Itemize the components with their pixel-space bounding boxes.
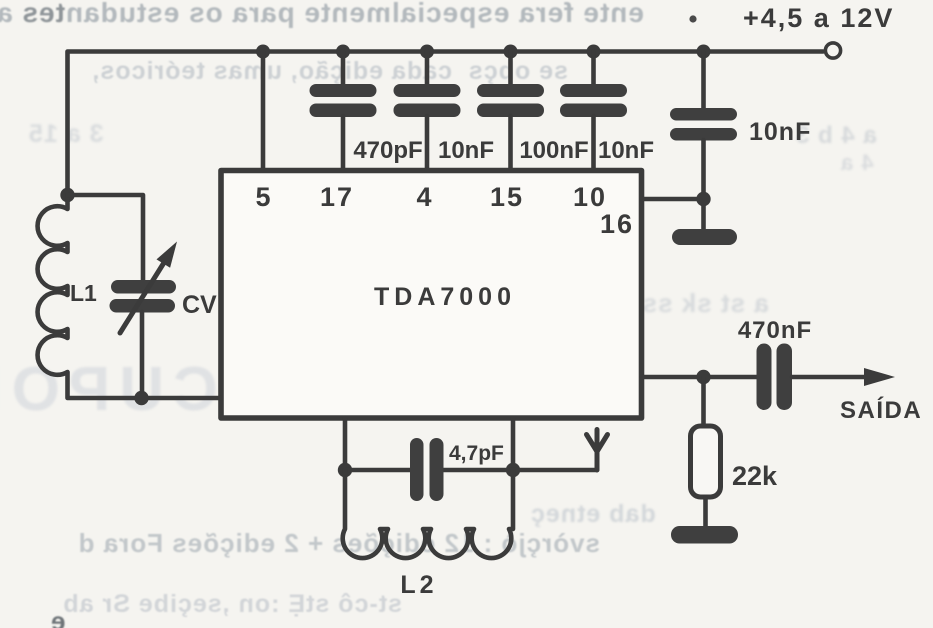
node rail-C2 [420,45,434,59]
bleed-through background texts (decorative) [0,0,644,29]
ink dot [689,15,696,22]
svg-text:10nF: 10nF [598,137,654,164]
svg-text:10nF: 10nF [438,137,494,164]
wire output pin [642,375,758,380]
node L2 left [338,463,352,477]
op-amp U1 TDA7000 [221,171,642,419]
svg-text:16: 16 [600,209,634,239]
variable capacitor CV [68,195,218,398]
capacitor C4 10nF [560,52,654,171]
svg-text:L1: L1 [70,280,97,306]
node L1 top [60,188,74,202]
node CV bottom [134,391,148,405]
node rail-pin5 [256,45,270,59]
antenna [587,430,608,471]
wire IC pin down left [343,418,348,470]
ground (R1) [671,526,738,544]
power rail +V [68,52,824,196]
node C5-pin16 [696,192,710,206]
node rail-C5 [697,45,711,59]
svg-text:10nF: 10nF [749,118,811,146]
inductor L1 [38,195,221,398]
wire pin5 [261,52,266,171]
capacitor C1 470pF [310,52,423,171]
capacitor C6 470nF [738,317,812,410]
svg-text:SAÍDA: SAÍDA [840,396,922,424]
svg-text:10: 10 [573,182,607,212]
svg-text:L2: L2 [400,571,437,599]
node rail-C3 [504,45,518,59]
svg-text:470pF: 470pF [353,137,422,164]
svg-text:4: 4 [416,182,431,212]
wire L2-C7 left [345,468,411,473]
ground (C5) [672,229,737,245]
inductor L2 [343,470,513,599]
svg-text:TDA7000: TDA7000 [374,283,516,311]
wire IC pin down right [511,418,516,470]
node output [696,370,710,384]
svg-text:15: 15 [490,182,524,212]
supply terminal [825,43,840,58]
node L2 right [506,463,520,477]
capacitor C5 10nF (bypass) [670,52,811,232]
svg-text:5: 5 [255,182,270,212]
node rail-C1 [336,45,350,59]
svg-text:17: 17 [320,182,354,212]
capacitor C7 4,7pF [410,438,504,501]
svg-text:4,7pF: 4,7pF [449,442,504,465]
resistor R1 22k [691,377,779,528]
capacitor C3 100nF [477,52,589,171]
svg-text:100nF: 100nF [519,137,588,164]
wire pin16 stub [642,197,704,202]
svg-text:22k: 22k [732,461,778,491]
svg-text:+4,5 a 12V: +4,5 a 12V [743,3,894,33]
wire output arrow [792,368,895,386]
node rail-C4 [587,45,601,59]
svg-text:470nF: 470nF [738,317,812,344]
capacitor C2 10nF [394,52,495,171]
svg-text:CV: CV [182,291,217,319]
wire C7-antenna [443,468,597,473]
